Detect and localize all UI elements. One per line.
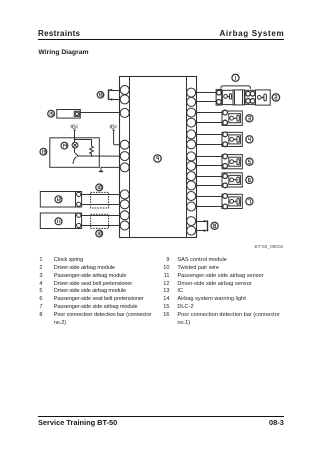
wire resistor to node (91, 153, 93, 156)
passenger-side side airbag module 7 (222, 194, 242, 209)
callout 7 (246, 198, 253, 205)
node junction resistor/output (91, 155, 93, 157)
callout 8 (211, 222, 218, 229)
passenger-side side airbag sensor 11 (40, 213, 81, 229)
ground (99, 171, 104, 173)
callout 1 clock spring (232, 74, 239, 81)
SAS module left connector pins (120, 86, 129, 231)
callout 15 (48, 110, 55, 117)
wire to passenger-side side airbag module pin 1 (196, 196, 222, 198)
wire sensor12 to pin L7 (81, 194, 121, 196)
wire to detection bar pin 1 (196, 221, 207, 223)
wire ground to pin L6 (101, 167, 120, 170)
DLC-2 box 15 (57, 110, 81, 119)
legend (33, 257, 43, 263)
callout 13 (40, 148, 47, 155)
footer right (269, 418, 284, 427)
wire to passenger-side seat belt pretensioner pin 2 (196, 185, 222, 187)
wire to pin L1 (108, 90, 120, 92)
figure number (255, 245, 284, 250)
clock spring bracket (221, 86, 251, 89)
power feed IG1 (left) (71, 125, 77, 143)
wire to passenger-side side airbag module pin 2 (196, 206, 222, 208)
power feed IG1 (right) (110, 125, 120, 145)
callout 16 (97, 92, 104, 99)
driver-side side airbag sensor 12 (40, 192, 81, 208)
driver-side seat belt pretensioner 4 (222, 132, 242, 147)
wire to driver-side side airbag module pin 1 (196, 156, 222, 158)
callout 10 lower (96, 230, 103, 237)
twisted pair wire 10 (upper) (91, 192, 109, 208)
wire IC output to pin L5 (78, 155, 121, 157)
wire DLC-2 to pin L3 (80, 112, 120, 114)
driver airbag 4-pin connector (245, 90, 256, 104)
node junction top (74, 139, 76, 141)
airbag warning lamp 14 (72, 142, 78, 148)
callout 3 (246, 115, 253, 122)
wire sensor11 to pin L9 (81, 215, 121, 217)
wire to passenger-side airbag module pin 2 (196, 122, 222, 124)
passenger-side airbag module 3 (222, 110, 242, 125)
wire to clock spring pin 1 (196, 92, 216, 94)
wire sensor11 to pin L10 (81, 225, 121, 227)
wire to pin L2 (108, 99, 120, 101)
wire sensor12 to pin L8 (81, 204, 121, 206)
callout 12 (55, 196, 62, 203)
IC box 13 (50, 138, 100, 168)
wire to detection bar pin 2 (196, 230, 207, 232)
twisted pair wire 10 (lower) (91, 214, 109, 228)
wire to passenger-side seat belt pretensioner pin 1 (196, 176, 222, 178)
callout 5 (246, 158, 253, 165)
SAS control module 9 (120, 76, 197, 237)
callout 10 upper (96, 184, 103, 191)
footer left (38, 418, 117, 427)
callout 6 (246, 176, 253, 183)
poor connection detection bar 8 (shorting bar) (204, 220, 208, 232)
wire to driver-side side airbag module pin 2 (196, 165, 222, 167)
callout 11 (55, 218, 62, 225)
callout 9 SAS control module (154, 155, 161, 162)
header title left (38, 29, 80, 38)
driver-side airbag module 2 (256, 90, 271, 105)
poor connection detection bar 16 (shorting bar) (109, 89, 113, 101)
wire to clock spring pin 2 (196, 101, 216, 103)
resistor in IC (90, 146, 94, 154)
section title (38, 49, 88, 56)
clock spring 2-pin connector (216, 90, 222, 106)
wire branch to resistor (75, 140, 92, 147)
clock spring 1 squib box (222, 90, 233, 104)
header title right (219, 29, 284, 38)
SAS module right connector pins (187, 88, 196, 235)
passenger-side seat belt pretensioner 6 (222, 173, 242, 188)
callout 4 (246, 136, 253, 143)
clock spring coil (233, 90, 244, 105)
wire to driver-side seat belt pretensioner pin 2 (196, 144, 222, 146)
driver-side side airbag module 5 (222, 154, 242, 169)
wire to driver-side seat belt pretensioner pin 1 (196, 134, 222, 136)
transistor in IC (73, 148, 79, 164)
footer rule (38, 416, 284, 417)
wire to passenger-side airbag module pin 1 (196, 112, 222, 114)
header rule (38, 38, 284, 41)
callout 2 driver airbag module (272, 94, 279, 101)
callout 14 (61, 142, 68, 149)
